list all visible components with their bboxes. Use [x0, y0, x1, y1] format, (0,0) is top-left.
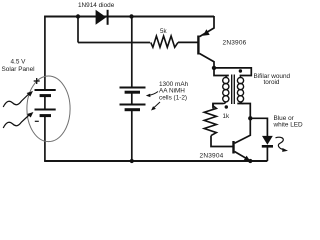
- node D junction dot (toroid right winding / LED / Q2 collector): [248, 116, 252, 120]
- transformer T1 top connection frame: [214, 67, 251, 76]
- transformer T1 label Bifilar wound toroid: [254, 73, 291, 86]
- svg-text:2N3904: 2N3904: [200, 153, 224, 160]
- photon arrow upper (light into solar panel): [3, 93, 30, 107]
- transistor Q2 2N3904 NPN: [234, 118, 251, 161]
- battery B1 label 1300 mAh AA NiMH cells (1-2): [159, 81, 189, 102]
- wire top rail V+: [44, 16, 214, 18]
- svg-text:Solar Panel: Solar Panel: [2, 66, 35, 73]
- wire from branch to 5k resistor (crosses battery rail, no connection): [78, 42, 150, 44]
- LED D2 blue/white: [262, 136, 273, 161]
- battery B1 callout arrow upper: [146, 92, 158, 98]
- svg-text:cells (1-2): cells (1-2): [159, 95, 187, 102]
- resistor R1 5k: [151, 36, 178, 47]
- solar panel SP1 plus terminal label: [34, 78, 40, 84]
- svg-text:AA NiMH: AA NiMH: [159, 88, 185, 95]
- wire battery - to bottom rail: [131, 110, 133, 161]
- diode D1 1N914: [96, 10, 108, 25]
- solar panel SP1 circle outline: [27, 76, 70, 142]
- transformer T1 left winding: [213, 75, 229, 108]
- transformer T1 phase dot lower (left winding): [225, 105, 228, 108]
- junction dot battery to bottom rail: [130, 159, 134, 163]
- svg-text:1k: 1k: [223, 113, 230, 120]
- svg-text:2N3906: 2N3906: [223, 40, 247, 47]
- solar panel SP1 minus terminal label: [35, 120, 39, 122]
- transistor Q1 2N3906 PNP: [198, 16, 214, 68]
- svg-text:5k: 5k: [160, 28, 167, 35]
- transformer T1 right winding: [237, 75, 250, 118]
- svg-text:1N914 diode: 1N914 diode: [78, 2, 115, 9]
- wire node D to LED anode: [250, 118, 267, 136]
- battery B1 callout arrow lower: [151, 102, 160, 111]
- transformer T1 phase dot upper (right winding): [239, 69, 242, 72]
- svg-text:toroid: toroid: [264, 79, 280, 86]
- wire bottom rail ground return: [44, 160, 267, 162]
- LED D2 label Blue or white LED: [273, 115, 304, 129]
- junction dot Q2 emitter to bottom rail: [248, 159, 252, 163]
- solar panel SP1 cell plates: [35, 90, 56, 116]
- wire 5k resistor to Q1 base: [178, 41, 198, 43]
- LED D2 light emission squiggle arrow: [276, 137, 289, 152]
- battery B1 cell plates (1300 mAh AA NiMH): [120, 88, 146, 110]
- wire solar panel inter-cell: [44, 96, 46, 110]
- wire battery inter-cell: [131, 93, 133, 105]
- svg-text:white LED: white LED: [273, 122, 304, 129]
- wire battery rail from diode cathode node down to battery: [131, 17, 133, 88]
- wire left rail upper (solar panel + to top rail): [44, 16, 46, 90]
- wire left rail lower (solar panel - to bottom rail): [44, 116, 46, 161]
- wire R2 to Q2 base: [211, 136, 233, 147]
- node C junction dot (Q1 collector / toroid top): [212, 66, 216, 70]
- svg-text:4.5 V: 4.5 V: [11, 59, 27, 66]
- transformer T1 core: [232, 75, 235, 105]
- node A junction dot (panel/diode/5k branch): [76, 14, 80, 18]
- resistor R2 1k: [204, 104, 216, 136]
- photon arrow lower (light into solar panel): [3, 114, 30, 128]
- node B junction dot (diode cathode / battery rail): [129, 14, 133, 18]
- wire branch from node A down to 5k resistor: [77, 17, 79, 43]
